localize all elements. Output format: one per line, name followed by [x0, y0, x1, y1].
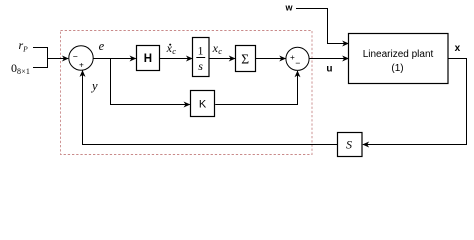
svg-text:y: y — [90, 79, 98, 93]
wire H to integrator — [160, 58, 193, 60]
svg-text:08×1: 08×1 — [11, 61, 30, 76]
label xdot_c — [169, 44, 171, 46]
wire branch e to K — [111, 59, 190, 105]
block sigma — [236, 46, 256, 72]
svg-text:xc: xc — [166, 41, 177, 56]
block K — [191, 91, 215, 117]
wire integrator to sigma — [209, 58, 235, 60]
wire plant output x to S block — [363, 59, 467, 145]
block S — [338, 133, 363, 157]
svg-text:+: + — [79, 60, 84, 70]
summing junction S2 — [286, 47, 309, 70]
svg-text:w: w — [285, 3, 294, 13]
svg-text:−: − — [73, 52, 78, 62]
wire w to plant — [296, 9, 348, 44]
block integrator 1/s — [193, 38, 210, 77]
svg-text:e: e — [99, 39, 105, 53]
wire K to S2 — [215, 71, 297, 105]
svg-text:u: u — [326, 64, 332, 75]
wire S2 to plant (u) — [309, 58, 348, 60]
wire input bracket — [33, 47, 48, 68]
block H — [137, 46, 160, 71]
svg-text:s: s — [198, 59, 203, 73]
svg-text:Σ: Σ — [241, 51, 249, 66]
svg-text:S: S — [346, 138, 352, 152]
wire S to S1 (y feedback) — [83, 71, 338, 145]
svg-text:K: K — [199, 99, 207, 111]
svg-text:1: 1 — [198, 45, 204, 57]
wire sigma to S2 — [256, 58, 286, 60]
block plant — [349, 34, 449, 84]
svg-text:(1): (1) — [391, 63, 403, 74]
summing junction S1 — [69, 46, 93, 70]
svg-text:x: x — [455, 43, 461, 54]
svg-text:Linearized plant: Linearized plant — [363, 49, 434, 60]
svg-text:rP: rP — [19, 38, 29, 54]
wire S1 to H — [93, 58, 136, 60]
wire bracket to summing junction S1 — [48, 58, 69, 60]
svg-text:−: − — [295, 58, 300, 68]
svg-text:xc: xc — [212, 41, 223, 56]
svg-text:H: H — [144, 53, 152, 65]
red dashed controller boundary — [61, 31, 313, 155]
